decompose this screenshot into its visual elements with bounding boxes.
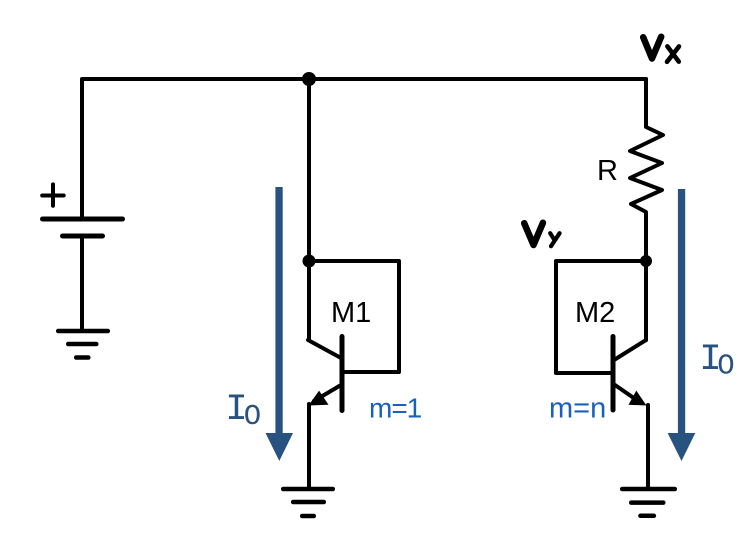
svg-text:O: O (244, 400, 261, 433)
svg-text:M1: M1 (331, 297, 371, 329)
svg-text:m=n: m=n (549, 393, 606, 425)
svg-text:O: O (717, 350, 734, 383)
svg-text:M2: M2 (575, 297, 615, 329)
svg-text:m=1: m=1 (369, 393, 422, 424)
svg-text:R: R (597, 155, 618, 187)
